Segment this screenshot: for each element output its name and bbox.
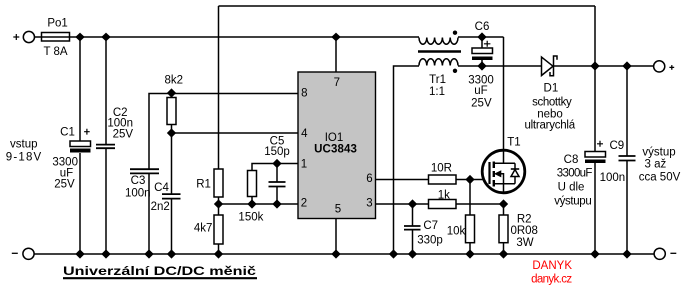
node C9 top junction — [623, 62, 630, 69]
resistor 150k — [248, 171, 257, 197]
fuse Po1 — [42, 33, 70, 42]
svg-text:150p: 150p — [264, 146, 290, 158]
svg-text:5: 5 — [335, 204, 341, 216]
wire C2 bottom — [105, 148, 107, 254]
svg-text:6: 6 — [366, 173, 372, 185]
wire input plus sign — [13, 34, 19, 40]
wire C7 top — [412, 204, 414, 226]
svg-text:DANYK: DANYK — [532, 260, 572, 272]
wire C6 top lead — [481, 37, 483, 48]
svg-text:výstupu: výstupu — [554, 195, 592, 207]
wire D1 to output — [554, 65, 654, 67]
resistor 8k2 — [167, 98, 176, 125]
svg-text:9-18V: 9-18V — [6, 152, 42, 164]
wire bottom ground rail — [34, 253, 654, 255]
node C8 top junction — [591, 62, 598, 69]
node C5 bottom junction — [273, 200, 280, 207]
wire pin1 net — [252, 164, 298, 171]
svg-text:Tr1: Tr1 — [429, 74, 446, 86]
wire 150k bottom — [251, 197, 253, 205]
wire input rail to transformer — [70, 36, 419, 38]
svg-text:C7: C7 — [423, 220, 438, 232]
node C1 top junction — [76, 34, 83, 41]
svg-text:7: 7 — [334, 77, 340, 89]
svg-text:330p: 330p — [417, 234, 443, 246]
capacitor C6 — [472, 41, 493, 60]
svg-text:1:1: 1:1 — [429, 86, 445, 98]
svg-text:C1: C1 — [60, 126, 75, 138]
svg-text:R1: R1 — [196, 179, 211, 191]
svg-text:4: 4 — [301, 128, 308, 140]
svg-text:4k7: 4k7 — [194, 223, 213, 235]
op-amp IO1 UC3843 body — [298, 72, 376, 219]
wire drain from switching node — [503, 37, 505, 151]
svg-text:R2: R2 — [517, 213, 532, 225]
wire 4k7 bottom — [218, 244, 220, 254]
svg-text:vstup: vstup — [10, 139, 38, 151]
svg-text:C8: C8 — [564, 154, 579, 166]
svg-text:T 8A: T 8A — [43, 46, 67, 58]
node C6 bottom junction — [478, 62, 485, 69]
wire switching node top — [458, 36, 504, 38]
svg-text:8k2: 8k2 — [165, 74, 184, 86]
wire C4 bottom — [171, 199, 173, 254]
svg-text:Univerzální DC/DC měnič: Univerzální DC/DC měnič — [63, 266, 257, 278]
svg-text:UC3843: UC3843 — [314, 144, 357, 156]
svg-text:Po1: Po1 — [47, 18, 67, 30]
wire C1 bottom — [79, 153, 81, 254]
node C7 top junction — [409, 200, 416, 207]
svg-text:0R08: 0R08 — [510, 225, 538, 237]
wire C6 bottom lead — [481, 60, 483, 66]
node C6 top junction — [478, 33, 485, 40]
node pin7 junction — [332, 34, 339, 41]
wire C1 top — [79, 37, 81, 141]
svg-text:uF: uF — [474, 85, 487, 97]
wire pin2 net — [219, 203, 299, 205]
capacitor C8 — [585, 141, 606, 163]
wire C9 top — [626, 66, 628, 156]
wire secondary return — [394, 66, 420, 254]
svg-text:danyk.cz: danyk.cz — [531, 274, 572, 286]
svg-text:150k: 150k — [238, 212, 263, 224]
capacitor C2 — [96, 145, 115, 149]
svg-text:IO1: IO1 — [325, 132, 344, 144]
capacitor C9 — [619, 156, 636, 161]
resistor 4k7 — [214, 215, 223, 244]
wire C9 bottom — [626, 161, 628, 255]
svg-text:3: 3 — [366, 198, 372, 210]
node - output terminal — [654, 248, 665, 259]
node C2 top junction — [102, 34, 109, 41]
wire feedback drop to R1 — [218, 6, 220, 169]
svg-text:C3: C3 — [131, 175, 146, 187]
capacitor C4 — [162, 194, 181, 199]
svg-text:1k: 1k — [438, 189, 450, 201]
wire pin7 — [335, 37, 337, 72]
svg-text:8: 8 — [301, 88, 307, 100]
wire C2 top — [105, 37, 107, 145]
diode D1 — [542, 56, 558, 76]
svg-text:1: 1 — [301, 159, 307, 171]
svg-text:C4: C4 — [154, 182, 169, 194]
wire pin8 net to C3 — [149, 94, 298, 170]
node R1 4k7 junction — [215, 200, 222, 207]
resistor R1 — [214, 169, 223, 197]
svg-text:100n: 100n — [125, 188, 151, 200]
wire from input terminal to fuse — [35, 36, 42, 38]
svg-text:výstup: výstup — [642, 147, 675, 159]
node Tr1 secondary polarity dot — [453, 69, 457, 73]
node Tr1 primary polarity dot — [453, 31, 457, 35]
svg-text:10R: 10R — [431, 163, 452, 175]
capacitor C7 — [404, 226, 421, 230]
svg-text:3W: 3W — [516, 237, 533, 249]
transformer Tr1 secondary — [419, 59, 458, 66]
wire C3 bottom — [148, 173, 150, 254]
svg-text:25V: 25V — [471, 98, 492, 110]
node 8k2 top junction — [168, 89, 175, 96]
svg-text:2: 2 — [301, 198, 307, 210]
node + input terminal — [23, 31, 34, 42]
capacitor C3 — [130, 169, 159, 173]
wire secondary to D1 — [458, 65, 542, 67]
wire output plus sign — [669, 65, 674, 70]
svg-text:10k: 10k — [447, 225, 466, 237]
wire C7 bottom — [412, 230, 414, 254]
transformer Tr1 core — [418, 50, 461, 53]
wire 10k bottom — [469, 243, 471, 254]
node + output terminal — [654, 61, 665, 72]
resistor R2 — [499, 204, 508, 243]
svg-text:100n: 100n — [600, 172, 626, 184]
svg-text:3 až: 3 až — [645, 159, 667, 171]
wire C4 top — [171, 133, 173, 194]
node gate junction — [466, 176, 473, 183]
wire R1 to 4k7 — [218, 197, 220, 215]
node ground junctions — [76, 250, 630, 257]
wire R2 bottom — [503, 243, 505, 254]
svg-text:25V: 25V — [54, 179, 75, 191]
svg-text:C6: C6 — [475, 21, 490, 33]
node 150k bottom junction — [248, 200, 255, 207]
svg-text:nebo: nebo — [537, 108, 563, 120]
wire pin5 — [335, 219, 337, 255]
svg-text:cca 50V: cca 50V — [639, 171, 681, 183]
svg-text:C9: C9 — [609, 140, 624, 152]
wire C5 bottom — [276, 187, 278, 205]
resistor 10R — [429, 175, 457, 184]
node - input terminal — [23, 248, 34, 259]
node 8k2 bottom junction — [168, 129, 175, 136]
wire feedback top rail — [219, 5, 596, 7]
wire pin3 net — [376, 203, 504, 205]
wire output minus sign — [670, 252, 676, 254]
svg-text:schottky: schottky — [532, 96, 572, 108]
svg-text:2n2: 2n2 — [151, 201, 170, 213]
svg-text:25V: 25V — [113, 128, 134, 140]
wire feedback drop right — [594, 6, 596, 66]
node source junction — [500, 200, 507, 207]
capacitor C1 — [70, 129, 91, 153]
svg-text:ultrarychlá: ultrarychlá — [524, 120, 575, 132]
wire pin4 net — [172, 94, 299, 134]
capacitor C5 — [269, 182, 286, 187]
wire input minus sign — [12, 252, 18, 254]
wire gate to 10k — [469, 180, 471, 216]
resistor 1k — [429, 200, 457, 209]
svg-text:U dle: U dle — [558, 181, 585, 193]
wire pin6 net — [376, 179, 489, 181]
wire C8 top — [594, 66, 596, 152]
resistor 10k — [466, 215, 475, 243]
svg-text:D1: D1 — [544, 83, 559, 95]
node C5 top junction — [273, 160, 280, 167]
svg-text:3300uF: 3300uF — [557, 167, 593, 179]
wire C8 bottom — [594, 163, 596, 254]
wire C5 top — [276, 164, 278, 183]
transformer Tr1 primary — [419, 38, 458, 45]
svg-text:T1: T1 — [507, 137, 520, 149]
transistor T1 — [482, 150, 525, 193]
